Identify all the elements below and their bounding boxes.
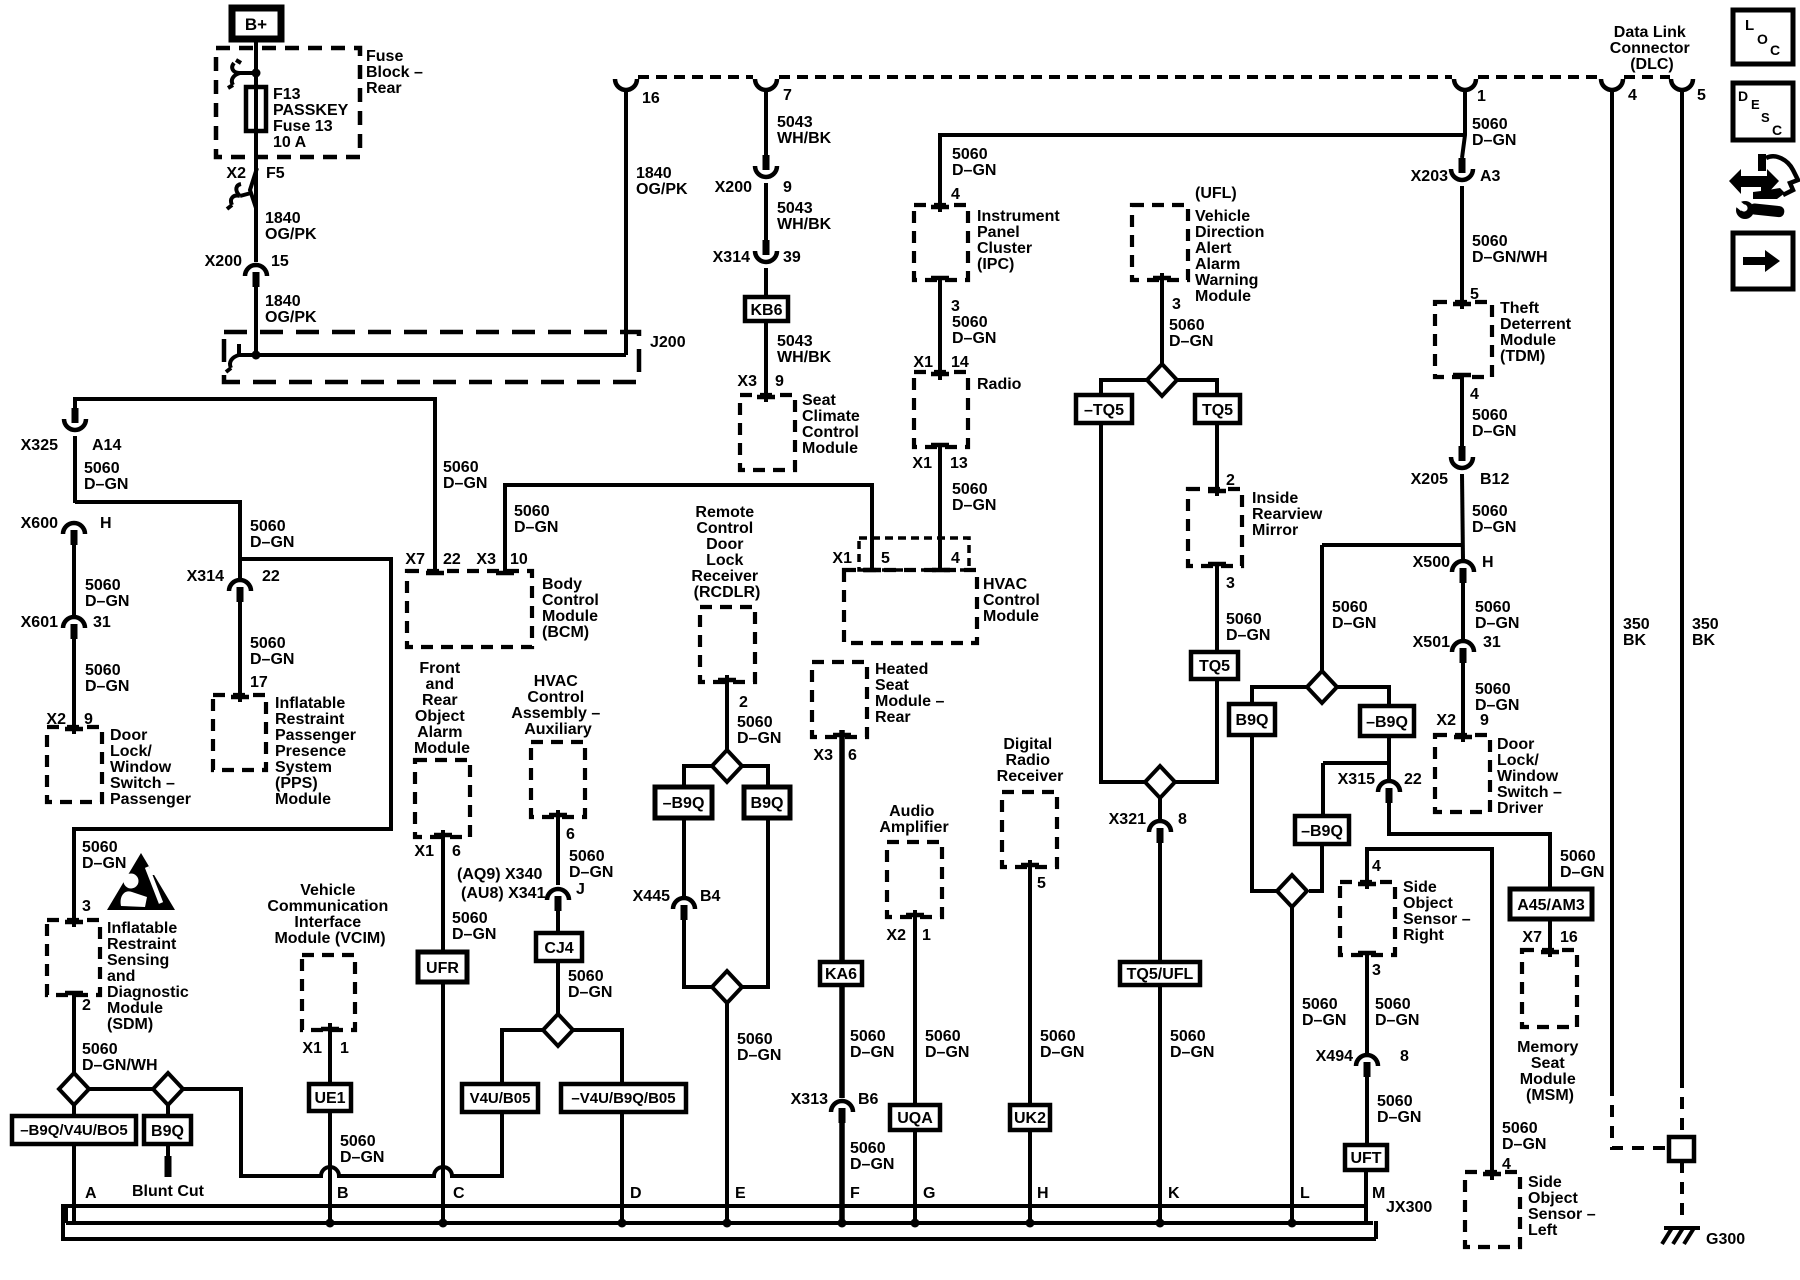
wire D to ground bus xyxy=(620,1112,624,1224)
svg-text:Digital Radio Receiver: Digital Radio Receiver xyxy=(997,736,1064,785)
svg-text:B6: B6 xyxy=(858,1091,879,1108)
svg-text:31: 31 xyxy=(1483,634,1501,651)
splice diamond E xyxy=(712,971,742,1003)
splice diamond rcdlr xyxy=(712,750,742,782)
wire CJ4 to splice xyxy=(556,961,560,1015)
svg-text:X2: X2 xyxy=(886,927,906,944)
svg-text:5060 D–GN: 5060 D–GN xyxy=(82,839,126,872)
wire M to ground bus xyxy=(1364,1170,1368,1222)
svg-text:3: 3 xyxy=(951,298,960,315)
svg-text:X200: X200 xyxy=(715,179,752,196)
splice diamond SDM xyxy=(59,1073,89,1105)
svg-text:5060 D–GN: 5060 D–GN xyxy=(1302,996,1346,1029)
audio amplifier box xyxy=(887,842,942,917)
wire L to ground bus xyxy=(1290,907,1294,1224)
option code -B9Q/V4U/BO5 xyxy=(12,1116,136,1144)
svg-text:5060 D–GN: 5060 D–GN xyxy=(514,503,558,536)
pin terminal pin 6 froam xyxy=(434,833,452,838)
HVAC control module X1 connector box xyxy=(859,538,969,570)
wire C to ground bus xyxy=(441,982,445,1224)
junction bus G xyxy=(911,1219,920,1228)
svg-text:5060 D–GN: 5060 D–GN xyxy=(1169,317,1213,350)
svg-text:5060 D–GN: 5060 D–GN xyxy=(340,1133,384,1166)
ground G300 symbol xyxy=(1662,1228,1700,1244)
svg-text:–B9Q: –B9Q xyxy=(1366,714,1408,731)
svg-text:B4: B4 xyxy=(700,888,721,905)
svg-text:H: H xyxy=(1037,1185,1049,1202)
inside rearview mirror box xyxy=(1188,489,1242,566)
connector code KA6 xyxy=(820,962,862,985)
wire E to ground bus xyxy=(725,1003,729,1224)
J200 terminal hook xyxy=(226,344,239,372)
svg-text:X601: X601 xyxy=(21,614,58,631)
connector code UE1 xyxy=(309,1084,351,1111)
pin terminal pin 2 rcdlr xyxy=(718,678,736,683)
svg-text:–V4U/B9Q/B05: –V4U/B9Q/B05 xyxy=(571,1090,675,1107)
wire irm to TQ5 second xyxy=(1215,566,1219,652)
pin terminal pin 17 pps xyxy=(231,695,249,700)
svg-text:X1: X1 xyxy=(302,1040,322,1057)
junction bus C xyxy=(439,1219,448,1228)
connector X314 pin 39 xyxy=(755,240,777,262)
svg-text:2: 2 xyxy=(82,997,91,1014)
wire X315 to A45/AM3 xyxy=(1389,802,1550,889)
wire FROAM to UFR xyxy=(441,830,445,952)
svg-text:X2: X2 xyxy=(1436,712,1456,729)
wire 5060 D-GN IPC to DLC pin 1 xyxy=(940,135,1465,212)
svg-text:9: 9 xyxy=(1480,712,1489,729)
svg-text:X205: X205 xyxy=(1411,471,1448,488)
svg-text:5060 D–GN: 5060 D–GN xyxy=(850,1140,894,1173)
splice diamond hvac aux xyxy=(543,1014,573,1046)
svg-text:6: 6 xyxy=(452,843,461,860)
svg-text:5060 D–GN: 5060 D–GN xyxy=(1332,599,1376,632)
svg-text:J: J xyxy=(576,881,585,898)
ground splice square xyxy=(1669,1137,1694,1161)
svg-text:2: 2 xyxy=(1226,472,1235,489)
svg-text:O: O xyxy=(1757,31,1768,47)
fuse block terminal hook top xyxy=(228,60,256,88)
wire branch X500 to diamond B9Q xyxy=(1322,543,1462,547)
body control module BCM box xyxy=(407,571,532,647)
wire 5043 WH/BK KB6 to seat climate module xyxy=(764,321,768,402)
option code UFT xyxy=(1345,1145,1387,1170)
connector X600 pin H xyxy=(63,523,85,545)
connector X321 pin 8 xyxy=(1149,821,1171,843)
wire splice to B9Q xyxy=(166,1105,170,1117)
svg-text:X1: X1 xyxy=(913,354,933,371)
svg-text:B9Q: B9Q xyxy=(751,795,784,812)
wire 5060 D-GN IPC to radio xyxy=(938,280,942,380)
svg-text:5060 D–GN: 5060 D–GN xyxy=(1472,116,1516,149)
X2/F5 terminal jog xyxy=(250,168,257,208)
pin terminal pin 1 amp xyxy=(906,913,924,918)
wire TQ5 second to splice X321 xyxy=(1175,679,1217,782)
svg-text:5060 D–GN: 5060 D–GN xyxy=(1170,1028,1214,1061)
connector 4 DLC xyxy=(1601,79,1623,90)
connector X314 pin 22 xyxy=(229,580,251,602)
wire splice to -TQ5 xyxy=(1101,380,1147,395)
inflatable restraint SDM box xyxy=(47,920,100,995)
wire 5043 WH/BK from pin 7 xyxy=(764,89,768,155)
svg-text:M: M xyxy=(1372,1185,1385,1202)
wire diamond to -B9Q xyxy=(1337,687,1389,706)
pin terminal pin 5 hvac xyxy=(863,568,881,573)
junction bus L xyxy=(1288,1219,1297,1228)
splice diamond L xyxy=(1277,875,1307,907)
wire X321 to TQ5/UFL xyxy=(1158,843,1162,962)
svg-text:X500: X500 xyxy=(1413,554,1450,571)
pin terminal pin 4 sos left xyxy=(1483,1172,1501,1177)
wire B9Q to diamond L xyxy=(1252,735,1277,891)
connector 1 xyxy=(1454,79,1476,90)
icon LOC box xyxy=(1733,10,1793,64)
svg-text:5060 D–GN: 5060 D–GN xyxy=(737,714,781,747)
front and rear object alarm module box xyxy=(415,760,470,837)
svg-text:5060 D–GN: 5060 D–GN xyxy=(952,481,996,514)
wire 5060 D-GN pin 1 to X203 xyxy=(1462,89,1465,158)
svg-text:A14: A14 xyxy=(92,437,121,454)
svg-text:31: 31 xyxy=(93,614,111,631)
svg-text:5060 D–GN: 5060 D–GN xyxy=(84,460,128,493)
junction fuse block feed xyxy=(252,69,261,78)
svg-text:5060 D–GN: 5060 D–GN xyxy=(1472,407,1516,440)
pin terminal pin 3 sdm xyxy=(65,920,83,925)
svg-text:A45/AM3: A45/AM3 xyxy=(1517,897,1585,914)
wire X500 to X501 xyxy=(1461,582,1465,642)
svg-text:5060 D–GN: 5060 D–GN xyxy=(250,518,294,551)
wire hvac aux to J connector xyxy=(556,810,560,885)
svg-text:4: 4 xyxy=(951,550,960,567)
wire J200 bus xyxy=(238,353,626,357)
wire J to CJ4 xyxy=(556,910,560,933)
pin terminal pin 14 radio xyxy=(931,372,949,377)
pin terminal pin 3 mirror xyxy=(1208,562,1226,567)
pin terminal pin 1 vcim xyxy=(321,1027,339,1032)
svg-text:B9Q: B9Q xyxy=(1236,712,1269,729)
svg-text:5060 D–GN: 5060 D–GN xyxy=(1377,1093,1421,1126)
svg-text:J200: J200 xyxy=(650,334,686,351)
svg-text:4: 4 xyxy=(1372,858,1381,875)
wire amp to UQA xyxy=(913,910,917,1105)
wire F to ground bus thick xyxy=(839,1122,845,1224)
svg-text:D: D xyxy=(1738,88,1748,104)
pin terminal pin 9 seat climate xyxy=(757,395,775,400)
wire 5060 D-GN radio to HVAC control module xyxy=(938,447,942,570)
svg-text:X313: X313 xyxy=(791,1091,828,1108)
wire heated seat to KA6 thick xyxy=(839,730,845,962)
svg-text:5060 D–GN: 5060 D–GN xyxy=(452,910,496,943)
option code -B9Q second xyxy=(1295,816,1349,844)
svg-text:5: 5 xyxy=(1037,875,1046,892)
svg-text:–B9Q/V4U/BO5: –B9Q/V4U/BO5 xyxy=(20,1122,128,1139)
wire 350 BK dashed to splice xyxy=(1612,1084,1666,1148)
connector X200 pin 15 xyxy=(245,265,267,287)
svg-text:TQ5: TQ5 xyxy=(1202,402,1233,419)
wire 5060 D-GN BCM X3-10 to HVAC pin 5 xyxy=(505,485,872,573)
wire 5060 D-GN/WH X203 to TDM xyxy=(1460,186,1464,309)
svg-text:2: 2 xyxy=(739,694,748,711)
svg-text:3: 3 xyxy=(1372,962,1381,979)
svg-text:4: 4 xyxy=(1628,87,1637,104)
door lock window switch passenger box xyxy=(47,727,102,802)
splice diamond B9Q right xyxy=(1307,671,1337,703)
svg-text:8: 8 xyxy=(1178,811,1187,828)
junction bus K xyxy=(1156,1219,1165,1228)
svg-text:X200: X200 xyxy=(205,253,242,270)
svg-text:5060 D–GN: 5060 D–GN xyxy=(250,635,294,668)
svg-text:1: 1 xyxy=(1477,88,1486,105)
svg-text:X321: X321 xyxy=(1109,811,1146,828)
svg-text:UFT: UFT xyxy=(1350,1150,1381,1167)
svg-text:UFR: UFR xyxy=(426,960,459,977)
svg-text:B9Q: B9Q xyxy=(151,1123,184,1140)
svg-text:Radio: Radio xyxy=(977,376,1022,393)
connector code CJ4 xyxy=(536,933,582,961)
pin terminal pin 10 bcm xyxy=(496,571,514,576)
connector X501 pin 31 xyxy=(1452,641,1474,663)
svg-text:B: B xyxy=(337,1185,349,1202)
svg-text:KA6: KA6 xyxy=(825,966,857,983)
heated seat module rear box xyxy=(812,662,867,737)
wire X205 to X500 xyxy=(1462,474,1463,560)
svg-text:5060 D–GN: 5060 D–GN xyxy=(1502,1120,1546,1153)
svg-text:H: H xyxy=(1482,554,1494,571)
svg-text:X501: X501 xyxy=(1413,634,1450,651)
pin terminal pin 3 sos right xyxy=(1358,951,1376,956)
option code TQ5/UFL xyxy=(1120,962,1200,985)
svg-text:C: C xyxy=(1770,42,1780,58)
option code B9Q rcdlr xyxy=(744,787,790,818)
memory seat module MSM box xyxy=(1522,950,1577,1027)
junction J200 xyxy=(252,351,261,360)
svg-text:5060 D–GN: 5060 D–GN xyxy=(1375,996,1419,1029)
svg-text:E: E xyxy=(735,1185,746,1202)
RCDLR box xyxy=(700,607,755,682)
svg-text:G300: G300 xyxy=(1706,1231,1745,1248)
fuse F13 PASSKEY 10A xyxy=(246,87,266,131)
HVAC control assembly auxiliary box xyxy=(531,742,585,817)
fuse block terminal hook X2/F5 xyxy=(227,184,251,209)
svg-text:Audio Amplifier: Audio Amplifier xyxy=(879,803,948,836)
wire ufl to splice xyxy=(1160,273,1164,365)
connector X315 pin 22 xyxy=(1378,781,1400,803)
svg-text:39: 39 xyxy=(783,249,801,266)
pin terminal pin 4 IPC xyxy=(931,205,949,210)
option code UFR xyxy=(418,952,467,982)
wire G to ground bus xyxy=(913,1130,917,1224)
svg-text:5060 D–GN: 5060 D–GN xyxy=(1475,681,1519,714)
wire 5060 D-GN X600 to X601 xyxy=(72,544,76,617)
wire splice to TQ5 xyxy=(1177,380,1217,395)
pin terminal pin 6 heated seat xyxy=(833,733,851,738)
pin terminal pin 5 drr xyxy=(1021,863,1039,868)
wire diamond to B9Q xyxy=(1252,687,1307,704)
blunt cut stub xyxy=(166,1144,170,1158)
junction bus B xyxy=(326,1219,335,1228)
svg-text:K: K xyxy=(1168,1185,1180,1202)
svg-text:5060 D–GN: 5060 D–GN xyxy=(85,662,129,695)
pin terminal pin 3 IPC xyxy=(931,276,949,281)
wire side object sensor right to left xyxy=(1367,849,1492,1180)
wire A to ground bus xyxy=(72,1144,76,1224)
icon wrench xyxy=(1730,195,1785,219)
svg-text:X1: X1 xyxy=(414,843,434,860)
svg-text:X3: X3 xyxy=(813,747,833,764)
svg-text:X203: X203 xyxy=(1411,168,1448,185)
option code V4U/B05 xyxy=(462,1084,538,1112)
svg-text:E: E xyxy=(1751,97,1760,112)
side object sensor right box xyxy=(1340,882,1395,955)
svg-text:X325: X325 xyxy=(21,437,58,454)
wire X314 to KB6 xyxy=(764,268,768,297)
svg-text:5060 D–GN: 5060 D–GN xyxy=(1560,848,1604,881)
svg-text:JX300: JX300 xyxy=(1386,1199,1432,1216)
dashed harness bus top xyxy=(638,75,1670,79)
svg-text:5060 D–GN: 5060 D–GN xyxy=(568,968,612,1001)
svg-text:B+: B+ xyxy=(245,15,267,34)
wire X494 to UFT xyxy=(1365,1076,1369,1145)
svg-text:UQA: UQA xyxy=(897,1110,933,1127)
svg-text:UE1: UE1 xyxy=(314,1090,345,1107)
junction bus D xyxy=(618,1219,627,1228)
wire KA6 to X313 thick xyxy=(839,985,845,1098)
option code TQ5 xyxy=(1195,395,1240,423)
icon DESC box xyxy=(1733,83,1793,140)
svg-text:X2: X2 xyxy=(226,165,246,182)
wire A45/AM3 to MSM xyxy=(1548,919,1552,957)
svg-text:X3: X3 xyxy=(737,373,757,390)
option code -TQ5 xyxy=(1076,395,1132,423)
connector 7 xyxy=(755,79,777,90)
VCIM box xyxy=(302,955,355,1030)
svg-text:S: S xyxy=(1761,110,1770,125)
svg-text:L: L xyxy=(1745,17,1754,34)
svg-text:A3: A3 xyxy=(1480,168,1501,185)
splice diamond ufl xyxy=(1147,364,1177,396)
pin terminal pin 6 hvac aux xyxy=(549,813,567,818)
svg-text:3: 3 xyxy=(1172,296,1181,313)
svg-text:CJ4: CJ4 xyxy=(544,940,573,957)
option code -V4U/B9Q/B05 xyxy=(561,1084,686,1112)
svg-text:5060 D–GN: 5060 D–GN xyxy=(925,1028,969,1061)
wire drr to UK2 xyxy=(1028,860,1032,1105)
wire TQ5 to inside rearview mirror xyxy=(1215,423,1219,496)
wire sos right to X494 xyxy=(1365,955,1369,1054)
instrument panel cluster IPC box xyxy=(914,205,968,280)
svg-text:5: 5 xyxy=(881,550,890,567)
svg-text:X3: X3 xyxy=(476,551,496,568)
option code B9Q right xyxy=(1229,704,1275,735)
pin terminal pin 4 tdm xyxy=(1453,373,1471,378)
pin terminal pin 4 hvac xyxy=(932,568,950,573)
svg-text:13: 13 xyxy=(950,455,968,472)
pin terminal pin 5 tdm xyxy=(1453,302,1471,307)
svg-text:9: 9 xyxy=(783,179,792,196)
svg-text:TQ5: TQ5 xyxy=(1199,658,1230,675)
svg-text:22: 22 xyxy=(443,551,461,568)
wire H to ground bus xyxy=(1028,1130,1032,1224)
radio box xyxy=(914,372,968,447)
svg-text:10: 10 xyxy=(510,551,528,568)
svg-text:5060 D–GN: 5060 D–GN xyxy=(1472,503,1516,536)
svg-text:(AU8) X341: (AU8) X341 xyxy=(461,885,546,902)
wire K to ground bus xyxy=(1158,985,1162,1224)
wire VCIM to UE1 xyxy=(328,1023,332,1084)
wire 5060 D-GN X314 to PPS xyxy=(238,601,242,702)
svg-text:(AQ9) X340: (AQ9) X340 xyxy=(457,866,542,883)
junction bus E xyxy=(723,1219,732,1228)
junction bus F xyxy=(838,1219,847,1228)
HVAC control module box xyxy=(844,570,977,643)
svg-text:6: 6 xyxy=(848,747,857,764)
side object sensor left box xyxy=(1465,1172,1520,1247)
connector X445 pin B4 xyxy=(673,898,695,920)
wire splice to X321 xyxy=(1158,798,1162,820)
pin terminal pin 2 mirror xyxy=(1208,489,1226,494)
svg-text:V4U/B05: V4U/B05 xyxy=(470,1090,531,1107)
icon reverse direction arrows xyxy=(1729,154,1798,199)
wire splice to -V4U/B9Q/B05 xyxy=(573,1030,622,1084)
svg-text:X7: X7 xyxy=(405,551,425,568)
svg-text:3: 3 xyxy=(82,898,91,915)
svg-text:X314: X314 xyxy=(713,249,750,266)
svg-text:Blunt Cut: Blunt Cut xyxy=(132,1183,205,1200)
option code B9Q left xyxy=(144,1116,191,1144)
svg-text:X7: X7 xyxy=(1522,929,1542,946)
svg-text:X494: X494 xyxy=(1316,1048,1353,1065)
wire branch to diamond B9Q xyxy=(1320,545,1324,671)
wire TDM to X205 xyxy=(1460,377,1464,448)
wire 5060 D-GN X325 to X600 xyxy=(73,436,77,503)
connector code KB6 xyxy=(745,297,788,321)
svg-text:3: 3 xyxy=(1226,575,1235,592)
connector 5 DLC xyxy=(1671,79,1693,90)
svg-text:5060 D–GN: 5060 D–GN xyxy=(952,146,996,179)
pin terminal pin 3 ufl xyxy=(1153,276,1171,281)
svg-text:Memory Seat Module (MSM): Memory Seat Module (MSM) xyxy=(1517,1039,1583,1104)
pin terminal pin 9 door passenger xyxy=(65,727,83,732)
wire 350 BK DLC pin 4 xyxy=(1610,89,1614,1084)
connector X200 pin 9 xyxy=(755,155,777,177)
connector X205 pin B12 xyxy=(1451,446,1473,468)
wire splice to V4U/B05 with hops over B and C xyxy=(183,1089,502,1176)
option code TQ5 second xyxy=(1191,652,1238,679)
svg-text:L: L xyxy=(1300,1185,1310,1202)
wire 5060 D-GN X601 to door lock passenger xyxy=(72,638,76,734)
svg-text:1: 1 xyxy=(922,927,931,944)
svg-text:D: D xyxy=(630,1185,642,1202)
svg-text:8: 8 xyxy=(1400,1048,1409,1065)
pin terminal pin 2 sdm xyxy=(65,991,83,996)
option code -B9Q right xyxy=(1360,706,1414,736)
wire X501 to door lock driver xyxy=(1461,662,1465,742)
wire splice to splice xyxy=(89,1087,153,1091)
svg-text:17: 17 xyxy=(250,674,268,691)
svg-text:X315: X315 xyxy=(1338,771,1375,788)
wire 1840 OG/PK to J200 xyxy=(254,287,258,355)
connector X325 pin A14 xyxy=(64,408,86,430)
wire B9Q to splice E xyxy=(741,818,768,987)
svg-text:5060 D–GN: 5060 D–GN xyxy=(443,459,487,492)
wire to -B9Q second xyxy=(1321,763,1325,816)
wire fuse F13 to X200 pin 15 xyxy=(254,135,258,262)
door lock window switch driver box xyxy=(1435,735,1490,812)
wire splice to -B9Q xyxy=(684,766,712,787)
wire X445 to splice E xyxy=(684,919,712,987)
svg-text:14: 14 xyxy=(951,354,969,371)
seat climate control module box xyxy=(740,395,795,470)
